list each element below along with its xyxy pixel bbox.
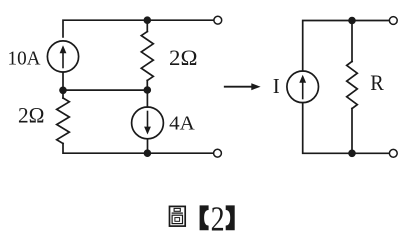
svg-text:R: R — [370, 70, 384, 95]
resistor R2 2ohm (left branch) — [62, 90, 64, 98]
current source I2 arrow (down) — [144, 112, 151, 135]
node C (middle right) — [144, 86, 152, 94]
node E (right circuit top) — [348, 17, 356, 25]
wire: left circuit top rail — [63, 20, 214, 37]
wire: right circuit top rail — [303, 21, 390, 71]
current source I arrow (up) — [299, 75, 306, 99]
terminal bottom-left circuit (open circle) — [214, 149, 222, 157]
current source I2 4A circle — [132, 107, 164, 139]
resistor R (right circuit) — [351, 21, 353, 62]
wire: left circuit bottom rail — [63, 144, 214, 154]
svg-text:2Ω: 2Ω — [18, 103, 45, 128]
caption right lenticular bracket — [226, 205, 235, 230]
caption left lenticular bracket — [200, 205, 209, 230]
current source I1 arrow — [60, 45, 67, 67]
node A (top middle) — [144, 16, 152, 24]
terminal top-left circuit (open circle) — [214, 16, 222, 24]
svg-text:10A: 10A — [8, 47, 41, 69]
node F (right circuit bottom) — [348, 150, 356, 158]
transformation arrow — [225, 83, 261, 90]
terminal top-right circuit (open circle) — [389, 17, 397, 25]
terminal bottom-right circuit (open circle) — [389, 149, 397, 157]
svg-text:2Ω: 2Ω — [169, 45, 198, 70]
svg-text:I: I — [273, 74, 280, 98]
svg-text:2: 2 — [211, 199, 225, 238]
wire: left circuit middle rail — [63, 72, 147, 90]
current source I1 10A circle — [47, 41, 78, 72]
caption character TU (figure) drawn glyph — [170, 206, 186, 226]
resistor R1 2ohm (top middle branch) — [146, 20, 148, 31]
node D (bottom middle) — [144, 149, 152, 157]
current source I2 4A leads — [146, 90, 148, 107]
current source I circle — [287, 71, 319, 103]
wire: right circuit bottom rail — [303, 103, 390, 154]
svg-text:4A: 4A — [169, 112, 195, 134]
node B (middle left) — [59, 87, 67, 95]
